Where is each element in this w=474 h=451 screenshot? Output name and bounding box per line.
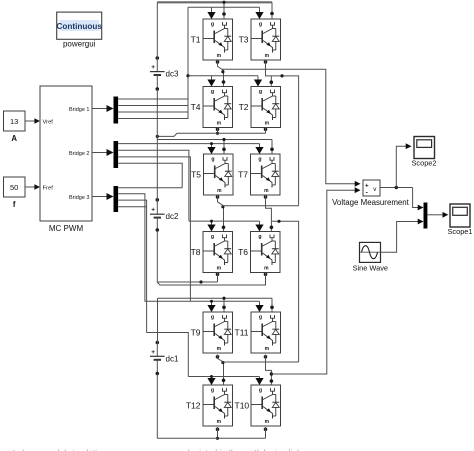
svg-text:g: g <box>211 234 214 240</box>
wire node A2 cascade from bridge1 B <box>222 205 299 207</box>
svg-text:m: m <box>265 346 270 352</box>
svg-text:Sine Wave: Sine Wave <box>353 263 388 272</box>
svg-text:m: m <box>265 53 270 59</box>
svg-text:T1: T1 <box>191 35 201 45</box>
wire node A3 cascade from bridge2 B <box>222 361 299 363</box>
wire top rail bridge2 <box>157 139 272 141</box>
wire dc1+ riser <box>157 298 159 342</box>
demux demux2 <box>114 141 119 168</box>
wire T3 emitter to node B1 / T2 collector <box>264 60 268 64</box>
demux2 line2 riser to T8 T6 gate line <box>118 150 189 221</box>
svg-text:T9: T9 <box>191 328 201 338</box>
wire node B1 cascade to bridge2 <box>271 76 298 206</box>
svg-text:g: g <box>259 315 262 321</box>
svg-text:T7: T7 <box>238 170 248 180</box>
wire top rail bridge3 <box>158 297 273 299</box>
wire f to Fref <box>25 186 37 188</box>
svg-text:T6: T6 <box>238 247 248 257</box>
svg-text:g: g <box>211 315 214 321</box>
wire node A1 to VM+ (output line A) <box>222 69 355 184</box>
svg-text:dc2: dc2 <box>166 212 179 221</box>
svg-text:+: + <box>151 349 155 356</box>
svg-text:T3: T3 <box>239 35 249 45</box>
svg-text:m: m <box>217 419 222 425</box>
svg-text:+: + <box>365 182 369 189</box>
transistor T5 <box>204 154 234 195</box>
demux1 output lines <box>118 98 188 100</box>
transistor T3 <box>251 19 281 60</box>
svg-text:g: g <box>211 89 214 95</box>
svg-text:Scope1: Scope1 <box>447 227 472 236</box>
svg-text:-: - <box>366 189 368 196</box>
svg-text:dc1: dc1 <box>166 354 179 363</box>
MC PWM block <box>40 86 92 221</box>
demux3 line1 <box>118 187 182 189</box>
svg-text:50: 50 <box>10 183 18 192</box>
wire bottom rail bridge3 <box>157 437 265 439</box>
svg-text:m: m <box>217 53 222 59</box>
wire riser to T12 T10 gate line <box>147 333 189 377</box>
svg-text:g: g <box>211 388 214 394</box>
wire VM out to mux <box>413 188 419 208</box>
svg-text:m: m <box>217 188 222 194</box>
powergui block <box>56 12 102 39</box>
svg-text:m: m <box>265 419 270 425</box>
svg-text:m: m <box>217 265 222 271</box>
mux block <box>424 203 428 229</box>
svg-text:g: g <box>259 89 262 95</box>
svg-text:Bridge 1: Bridge 1 <box>69 107 90 113</box>
svg-text:Voltage Measurement: Voltage Measurement <box>332 198 410 207</box>
wire top rail bridge1 <box>157 1 272 3</box>
wire bottom rail bridge1 to dc chain <box>157 133 265 136</box>
svg-text:13: 13 <box>10 117 18 126</box>
svg-text:T11: T11 <box>235 328 249 338</box>
svg-text:+: + <box>151 64 155 71</box>
wire gate line T9 T11 <box>146 300 259 302</box>
scope2 block <box>414 137 435 159</box>
svg-text:A: A <box>11 134 17 143</box>
wire T1 emitter to node A1 / T4 collector <box>216 60 220 64</box>
wire Bridge3 to demux3 <box>92 196 109 198</box>
wire gate line T1 T3 <box>188 6 260 8</box>
wire gate line T12 T10 <box>188 376 259 378</box>
voltage measurement block <box>363 180 380 196</box>
svg-text:g: g <box>259 388 262 394</box>
svg-text:m: m <box>217 346 222 352</box>
svg-text:g: g <box>258 234 261 240</box>
svg-text:Continuous: Continuous <box>56 22 102 31</box>
transistor T10 <box>251 385 281 426</box>
sine wave block <box>360 242 381 262</box>
transistor T2 <box>251 87 281 128</box>
transistor T6 <box>251 232 281 273</box>
svg-text:T5: T5 <box>191 170 201 180</box>
wire node B3 to VM- <box>270 372 273 375</box>
svg-text:m: m <box>265 120 270 126</box>
svg-text:m: m <box>264 265 269 271</box>
wire Bridge1 to demux1 <box>92 108 109 110</box>
svg-text:T4: T4 <box>191 102 201 112</box>
wire T4 emitter to bottom rail1 <box>216 128 220 132</box>
svg-text:T10: T10 <box>235 401 250 411</box>
wire T7 collector drop <box>271 140 273 155</box>
wire dc3+ riser to top rail <box>156 2 158 58</box>
dc source dc2 <box>150 198 165 232</box>
svg-text:T8: T8 <box>191 247 201 257</box>
demux2 line4 short riser <box>118 163 182 188</box>
wire T3 collector drop <box>271 2 273 19</box>
constant block 50 (f) <box>4 177 26 197</box>
svg-text:T2: T2 <box>239 102 249 112</box>
demux demux1 <box>114 97 119 124</box>
riser demux1 to top gate line <box>187 7 189 119</box>
transistor T8 <box>203 232 233 273</box>
wire T10 emitter to bottom rail3 <box>264 428 268 432</box>
wire gate line T5 T7 (demux2 line1) <box>118 143 259 145</box>
svg-text:f: f <box>13 200 16 209</box>
svg-text:depicted in the matlab simulin: depicted in the matlab simulink <box>185 448 302 451</box>
svg-text:g: g <box>211 157 214 163</box>
dc source dc1 <box>150 341 165 376</box>
svg-text:m: m <box>264 188 269 194</box>
svg-text:powergui: powergui <box>63 40 96 49</box>
wire T11 collector drop <box>271 298 273 312</box>
wire T11 emitter to node B3 / T10 collector <box>264 355 268 359</box>
svg-text:Bridge 3: Bridge 3 <box>69 195 90 201</box>
transistor T9 <box>203 312 233 353</box>
wire T2 emitter to bottom rail1 <box>264 128 268 132</box>
wire T7 emitter to node B2 / T6 collector <box>264 195 268 199</box>
wire VM output <box>380 187 413 189</box>
svg-text:Bridge 2: Bridge 2 <box>69 151 90 157</box>
wire A to Vref <box>25 120 37 122</box>
svg-text:g: g <box>258 157 261 163</box>
demux3 line2 riser to T9 T11 gate line <box>118 194 146 301</box>
wire bottom rail bridge2 <box>157 281 217 283</box>
wire Bridge2 to demux2 <box>92 152 109 154</box>
wire T9 collector drop <box>223 298 225 312</box>
wire sine wave to mux <box>381 222 420 253</box>
demux3 line3 riser <box>118 200 147 332</box>
wire T6 emitter return line <box>264 273 268 277</box>
wire dc chain dc1- down to rail3 <box>156 374 158 439</box>
wire gate line T4 T2 <box>188 75 258 77</box>
svg-text:+: + <box>151 207 155 214</box>
wire branch to Scope2 <box>396 146 406 187</box>
svg-text:at above model simulation: at above model simulation <box>8 448 107 451</box>
demux3 line4 <box>118 206 147 208</box>
transistor T7 <box>251 154 281 195</box>
wire dc chain dc3- to dc2+ <box>156 89 158 200</box>
transistor T4 <box>203 87 233 128</box>
wire mux output to Scope1 <box>427 214 443 216</box>
svg-text:MC PWM: MC PWM <box>49 224 84 233</box>
wire T12 emitter to bottom rail3 <box>216 428 220 432</box>
wire T8 emitter to bottom rail2 <box>216 273 220 277</box>
svg-text:g: g <box>211 22 214 28</box>
dc source dc3 <box>150 56 165 91</box>
svg-text:m: m <box>217 120 222 126</box>
svg-text:Vref: Vref <box>43 120 54 126</box>
wire T5 collector drop <box>223 140 225 155</box>
scope1 block <box>450 204 470 227</box>
svg-text:g: g <box>259 22 262 28</box>
wire dc chain dc2- down to rail2 <box>156 230 158 282</box>
demux demux3 <box>114 186 119 212</box>
constant block 13 (A) <box>4 111 26 131</box>
wire T9 emitter to node A3 / T12 collector <box>216 355 220 359</box>
transistor T11 <box>251 312 281 353</box>
demux2 line3 riser down <box>118 157 190 301</box>
svg-text:dc3: dc3 <box>166 70 179 79</box>
wire gate line T8 T6 <box>189 220 260 222</box>
transistor T1 <box>203 19 233 60</box>
transistor T12 <box>203 385 233 426</box>
svg-text:Fref: Fref <box>43 186 54 192</box>
svg-text:Scope2: Scope2 <box>411 159 436 168</box>
svg-text:T12: T12 <box>186 401 201 411</box>
wire node B2 cascade to bridge3 <box>271 221 298 362</box>
wire T1 collector drop <box>223 2 225 19</box>
wire T5 emitter to node A2 / T8 collector <box>216 195 220 199</box>
